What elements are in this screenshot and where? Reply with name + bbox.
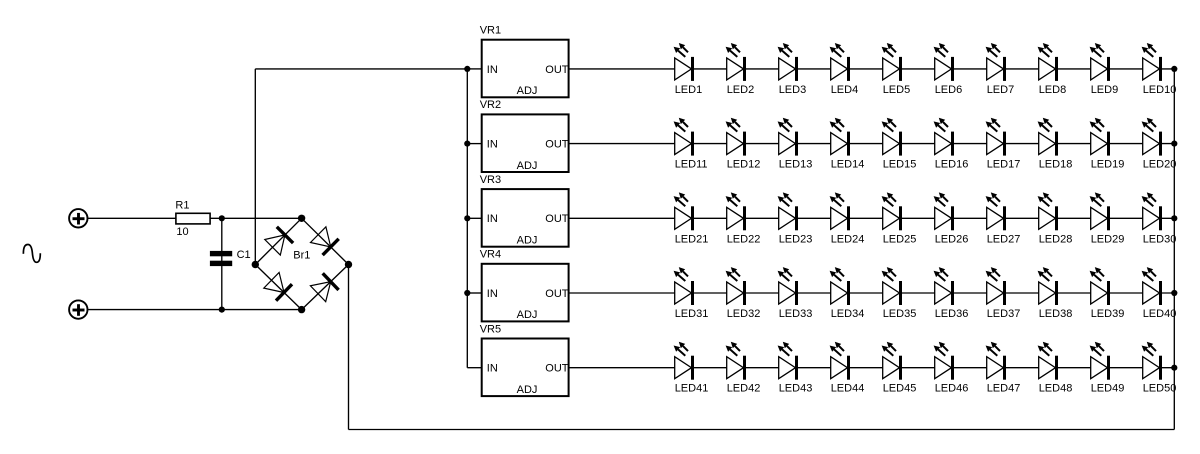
LED LED32 — [726, 267, 761, 320]
ac terminal top + — [69, 209, 87, 227]
wire C1 vertical — [221, 218, 223, 309]
svg-text:LED28: LED28 — [1039, 233, 1073, 245]
LED LED1 — [674, 43, 703, 96]
node bridge top — [298, 215, 305, 222]
svg-text:10: 10 — [176, 226, 188, 238]
svg-text:LED42: LED42 — [727, 383, 761, 395]
svg-text:OUT: OUT — [545, 139, 569, 151]
svg-text:LED11: LED11 — [675, 159, 708, 171]
svg-text:LED9: LED9 — [1091, 84, 1119, 96]
svg-text:LED39: LED39 — [1091, 308, 1125, 320]
svg-text:VR5: VR5 — [480, 323, 501, 335]
svg-text:LED47: LED47 — [987, 383, 1021, 395]
LED LED31 — [674, 267, 709, 320]
LED LED12 — [726, 118, 761, 171]
junction bus row 2 — [464, 141, 470, 147]
LED LED28 — [1038, 192, 1073, 245]
LED LED37 — [986, 267, 1021, 320]
wire VR1 OUT to LED chain row 1 — [569, 68, 1175, 70]
junction bus row 3 — [464, 215, 470, 221]
svg-text:LED49: LED49 — [1091, 383, 1125, 395]
LED LED47 — [986, 342, 1021, 395]
wire stub to VR1 IN — [467, 68, 481, 70]
svg-text:LED50: LED50 — [1143, 383, 1177, 395]
capacitor C1 — [210, 251, 232, 266]
LED LED26 — [934, 192, 969, 245]
junction right bus row 2 — [1171, 141, 1177, 147]
svg-text:ADJ: ADJ — [517, 85, 538, 97]
svg-text:LED34: LED34 — [831, 308, 865, 320]
svg-text:LED23: LED23 — [779, 233, 813, 245]
LED LED19 — [1090, 118, 1125, 171]
svg-text:LED12: LED12 — [727, 159, 761, 171]
wire stub to VR4 IN — [467, 292, 481, 294]
svg-text:OUT: OUT — [545, 213, 569, 225]
svg-text:LED32: LED32 — [727, 308, 761, 320]
svg-text:LED24: LED24 — [831, 233, 865, 245]
svg-text:OUT: OUT — [545, 64, 569, 76]
svg-text:LED21: LED21 — [675, 233, 709, 245]
wire bottom return — [349, 429, 1175, 431]
svg-text:LED27: LED27 — [987, 233, 1021, 245]
regulator VR4 — [482, 264, 569, 322]
junction C1 top — [219, 215, 225, 221]
svg-text:LED45: LED45 — [883, 383, 917, 395]
svg-text:LED4: LED4 — [831, 84, 859, 96]
LED LED35 — [882, 267, 917, 320]
svg-text:ADJ: ADJ — [517, 235, 538, 247]
regulator VR2 — [482, 114, 569, 172]
svg-text:IN: IN — [487, 363, 498, 375]
svg-text:LED15: LED15 — [883, 159, 917, 171]
bridge rectifier Br1 frame — [255, 218, 348, 309]
svg-text:LED22: LED22 — [727, 233, 761, 245]
wire VR3 OUT to LED chain row 3 — [569, 217, 1175, 219]
node bridge left — [252, 261, 259, 268]
svg-text:LED16: LED16 — [935, 159, 969, 171]
svg-text:LED3: LED3 — [779, 84, 807, 96]
LED LED16 — [934, 118, 969, 171]
LED LED17 — [986, 118, 1021, 171]
node bridge right — [345, 261, 352, 268]
LED LED42 — [726, 342, 761, 395]
wire ac bottom to bridge bottom node — [88, 309, 302, 311]
svg-text:LED7: LED7 — [987, 84, 1015, 96]
svg-text:LED14: LED14 — [831, 159, 865, 171]
wire stub to VR2 IN — [467, 143, 481, 145]
wire VR4 OUT to LED chain row 4 — [569, 292, 1175, 294]
junction right bus row 1 — [1171, 66, 1177, 72]
LED LED50 — [1142, 342, 1177, 395]
svg-text:Br1: Br1 — [293, 250, 310, 262]
LED LED4 — [830, 43, 859, 96]
wire right bus — [1173, 69, 1175, 430]
svg-text:LED30: LED30 — [1143, 233, 1177, 245]
LED LED34 — [830, 267, 865, 320]
junction C1 bottom — [219, 307, 225, 313]
LED LED5 — [882, 43, 911, 96]
svg-text:LED17: LED17 — [987, 159, 1021, 171]
bridge diode D4 (bottom-right) — [310, 273, 338, 301]
LED LED29 — [1090, 192, 1125, 245]
bridge diode D2 (top-right) — [311, 227, 339, 255]
svg-text:LED1: LED1 — [675, 84, 703, 96]
LED LED27 — [986, 192, 1021, 245]
LED LED10 — [1142, 43, 1177, 96]
regulator VR5 — [482, 339, 569, 397]
svg-text:OUT: OUT — [545, 363, 569, 375]
svg-text:LED40: LED40 — [1143, 308, 1177, 320]
junction right bus row 5 — [1171, 365, 1177, 371]
svg-text:OUT: OUT — [545, 288, 569, 300]
junction bus row 4 — [464, 290, 470, 296]
ac sine symbol — [23, 244, 40, 262]
junction right bus row 4 — [1171, 290, 1177, 296]
svg-text:LED19: LED19 — [1091, 159, 1125, 171]
svg-text:LED5: LED5 — [883, 84, 911, 96]
LED LED40 — [1142, 267, 1177, 320]
wire VR input bus — [466, 69, 468, 368]
wire bridge right node drop — [348, 265, 350, 430]
LED LED7 — [986, 43, 1015, 96]
svg-text:C1: C1 — [237, 249, 251, 261]
LED LED18 — [1038, 118, 1073, 171]
svg-text:IN: IN — [487, 139, 498, 151]
LED LED36 — [934, 267, 969, 320]
LED LED11 — [674, 118, 708, 171]
svg-text:VR3: VR3 — [480, 174, 501, 186]
LED LED45 — [882, 342, 917, 395]
svg-text:LED36: LED36 — [935, 308, 969, 320]
svg-text:LED18: LED18 — [1039, 159, 1073, 171]
svg-text:LED10: LED10 — [1143, 84, 1177, 96]
LED LED39 — [1090, 267, 1125, 320]
LED LED44 — [830, 342, 865, 395]
LED LED2 — [726, 43, 755, 96]
wire stub to VR5 IN — [467, 367, 481, 369]
svg-text:LED26: LED26 — [935, 233, 969, 245]
LED LED49 — [1090, 342, 1125, 395]
bridge diode D1 (left-top) — [265, 227, 293, 255]
wire top feeder to VR bus — [255, 68, 467, 70]
svg-text:R1: R1 — [175, 200, 189, 212]
LED LED30 — [1142, 192, 1177, 245]
wire ac top to R1 and bridge top node — [88, 217, 302, 219]
wire VR2 OUT to LED chain row 2 — [569, 143, 1175, 145]
svg-text:ADJ: ADJ — [517, 309, 538, 321]
svg-text:LED31: LED31 — [675, 308, 709, 320]
LED LED48 — [1038, 342, 1073, 395]
LED LED15 — [882, 118, 917, 171]
regulator VR3 — [482, 189, 569, 247]
LED LED22 — [726, 192, 761, 245]
svg-text:LED35: LED35 — [883, 308, 917, 320]
bridge diode D3 (left-bottom) — [264, 272, 292, 300]
svg-text:VR1: VR1 — [480, 25, 501, 37]
svg-text:IN: IN — [487, 64, 498, 76]
wire VR5 OUT to LED chain row 5 — [569, 367, 1175, 369]
svg-text:LED48: LED48 — [1039, 383, 1073, 395]
svg-text:LED8: LED8 — [1039, 84, 1067, 96]
svg-text:VR2: VR2 — [480, 99, 501, 111]
svg-text:LED33: LED33 — [779, 308, 813, 320]
svg-text:LED38: LED38 — [1039, 308, 1073, 320]
svg-text:LED2: LED2 — [727, 84, 755, 96]
LED LED23 — [778, 192, 813, 245]
LED LED24 — [830, 192, 865, 245]
LED LED41 — [674, 342, 709, 395]
LED LED20 — [1142, 118, 1177, 171]
svg-text:ADJ: ADJ — [517, 160, 538, 172]
LED LED8 — [1038, 43, 1067, 96]
svg-text:LED25: LED25 — [883, 233, 917, 245]
LED LED13 — [778, 118, 813, 171]
wire stub to VR3 IN — [467, 217, 481, 219]
svg-text:VR4: VR4 — [480, 249, 501, 261]
svg-text:IN: IN — [487, 288, 498, 300]
wire bridge left node riser — [254, 69, 256, 265]
svg-text:LED41: LED41 — [675, 383, 709, 395]
svg-text:LED13: LED13 — [779, 159, 813, 171]
LED LED38 — [1038, 267, 1073, 320]
resistor R1 — [176, 213, 210, 224]
svg-text:LED46: LED46 — [935, 383, 969, 395]
junction bus row 1 — [464, 66, 470, 72]
LED LED9 — [1090, 43, 1119, 96]
svg-text:LED20: LED20 — [1143, 159, 1177, 171]
svg-text:LED43: LED43 — [779, 383, 813, 395]
LED LED43 — [778, 342, 813, 395]
svg-text:IN: IN — [487, 213, 498, 225]
LED LED46 — [934, 342, 969, 395]
svg-text:LED44: LED44 — [831, 383, 865, 395]
regulator VR1 — [482, 40, 569, 98]
LED LED33 — [778, 267, 813, 320]
ac terminal bottom + — [69, 300, 87, 318]
LED LED14 — [830, 118, 865, 171]
svg-text:LED29: LED29 — [1091, 233, 1125, 245]
LED LED21 — [674, 192, 709, 245]
node bridge bottom — [298, 306, 305, 313]
svg-text:ADJ: ADJ — [517, 384, 538, 396]
LED LED25 — [882, 192, 917, 245]
svg-text:LED37: LED37 — [987, 308, 1021, 320]
junction right bus row 3 — [1171, 215, 1177, 221]
svg-text:LED6: LED6 — [935, 84, 963, 96]
LED LED6 — [934, 43, 963, 96]
LED LED3 — [778, 43, 807, 96]
